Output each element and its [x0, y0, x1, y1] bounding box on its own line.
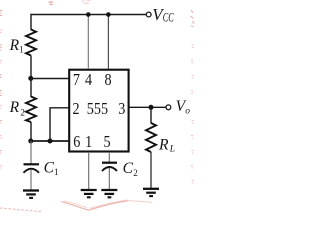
- capacitor C2: [102, 163, 117, 171]
- svg-text:555: 555: [87, 100, 109, 118]
- svg-text:1: 1: [19, 45, 24, 55]
- svg-text:R: R: [158, 136, 169, 153]
- svg-text:R: R: [9, 37, 20, 54]
- terminal VCC open circle: [146, 12, 151, 17]
- svg-text:3: 3: [118, 100, 125, 118]
- ground pin 1: [81, 190, 97, 197]
- wire to pin 7: [31, 78, 69, 80]
- node junction R1/R2/pin7: [28, 76, 33, 81]
- wire pin 8 to VCC rail: [107, 15, 109, 70]
- node junction output/RL: [149, 105, 154, 110]
- ground C1: [23, 191, 39, 198]
- wire C2 bottom lead: [108, 168, 110, 190]
- resistor RL: [146, 123, 156, 152]
- label VCC: [152, 5, 174, 24]
- wire C1 bottom lead: [30, 170, 32, 190]
- ground RL: [143, 189, 159, 196]
- wire top VCC rail: [31, 14, 147, 16]
- svg-text:5: 5: [103, 133, 110, 151]
- svg-text:o: o: [185, 106, 190, 116]
- node junction pin2 branch: [48, 139, 53, 144]
- wire R2 top lead: [30, 79, 32, 98]
- wire pin 1 to ground: [88, 152, 90, 189]
- wire to pin 2: [50, 108, 69, 141]
- svg-text:2: 2: [72, 100, 79, 118]
- wire R1 top lead: [30, 14, 32, 30]
- svg-text:L: L: [169, 145, 175, 155]
- wire pin 3 output: [129, 106, 166, 108]
- svg-text:1: 1: [85, 133, 92, 151]
- wire RL top lead: [150, 107, 152, 123]
- wire C1 top lead: [30, 141, 32, 164]
- svg-text:C: C: [123, 160, 134, 177]
- capacitor C1: [24, 164, 40, 173]
- svg-text:6: 6: [73, 133, 80, 151]
- svg-text:2: 2: [20, 107, 25, 117]
- svg-text:C: C: [44, 159, 55, 176]
- label R2: [9, 99, 25, 117]
- label C2: [123, 160, 138, 178]
- svg-text:8: 8: [104, 71, 111, 89]
- svg-text:CC: CC: [163, 11, 174, 25]
- label Vo: [176, 98, 191, 116]
- wire to pin 6: [31, 140, 69, 142]
- wire R2 bottom lead: [30, 122, 32, 141]
- terminal Vo open circle: [166, 105, 171, 110]
- svg-text:4: 4: [85, 71, 92, 89]
- wire R1 bottom lead: [30, 56, 32, 79]
- svg-text:1: 1: [54, 167, 59, 177]
- ground C2: [101, 190, 117, 197]
- svg-text:7: 7: [73, 71, 80, 89]
- label RL: [158, 136, 175, 154]
- op-amp U1 555 timer box: [69, 70, 128, 152]
- node junction pin8/rail: [106, 12, 111, 17]
- wire RL bottom lead: [150, 152, 152, 188]
- resistor R1: [26, 30, 36, 56]
- wire pin 4 to VCC rail: [87, 15, 89, 70]
- svg-text:R: R: [9, 99, 20, 116]
- svg-text:2: 2: [133, 168, 138, 178]
- label R1: [9, 37, 24, 55]
- resistor R2: [26, 97, 36, 123]
- node junction pin4/rail: [86, 12, 91, 17]
- label C1: [44, 159, 59, 177]
- node junction R2/C1/pin6: [28, 139, 33, 144]
- wire pin 5 lead: [108, 152, 110, 162]
